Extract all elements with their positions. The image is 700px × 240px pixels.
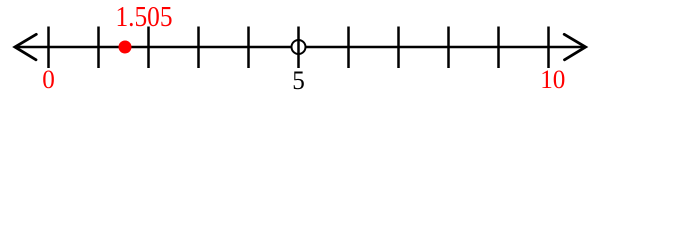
tick 10	[547, 27, 550, 69]
tick 2	[147, 27, 150, 69]
red point at 1.505	[119, 41, 132, 54]
tick 7	[397, 27, 400, 69]
tick 6	[347, 27, 350, 69]
open circle at 5	[292, 40, 306, 54]
tick 4	[247, 27, 250, 69]
svg-text:0: 0	[42, 64, 55, 94]
tick 9	[497, 27, 500, 69]
svg-text:1.505: 1.505	[115, 0, 172, 32]
tick 8	[447, 27, 450, 69]
number line main axis	[15, 46, 585, 49]
right arrowhead	[564, 34, 585, 60]
left arrowhead	[15, 34, 36, 60]
tick 1	[97, 27, 100, 69]
svg-text:5: 5	[292, 65, 305, 95]
tick 3	[197, 27, 200, 69]
tick 0	[47, 27, 50, 69]
tick 5	[297, 27, 300, 69]
svg-text:10: 10	[540, 64, 565, 94]
